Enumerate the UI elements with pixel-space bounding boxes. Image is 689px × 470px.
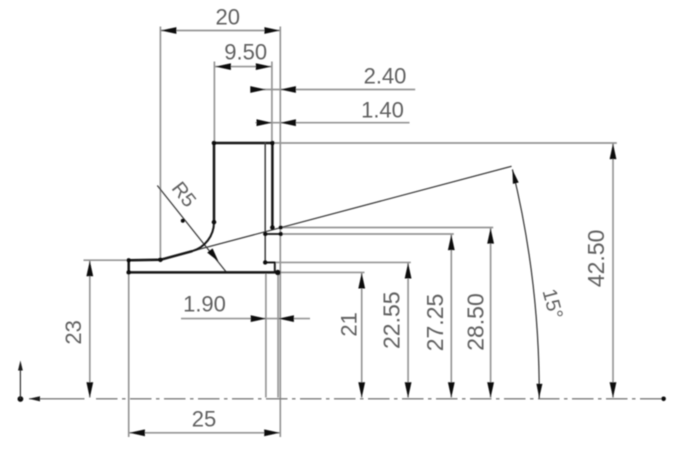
svg-text:21: 21 [336,312,361,336]
svg-text:23: 23 [61,320,86,344]
svg-text:1.40: 1.40 [361,98,404,123]
svg-text:27.25: 27.25 [422,294,448,352]
svg-text:28.50: 28.50 [463,293,489,351]
svg-text:9.50: 9.50 [224,39,267,64]
svg-text:42.50: 42.50 [583,230,609,288]
svg-text:22.55: 22.55 [378,291,404,349]
svg-text:25: 25 [192,407,216,432]
svg-text:1.90: 1.90 [183,291,226,316]
svg-text:20: 20 [216,5,240,30]
svg-text:2.40: 2.40 [364,63,407,88]
